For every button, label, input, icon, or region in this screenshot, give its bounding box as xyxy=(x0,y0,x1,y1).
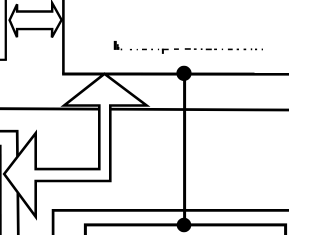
wire: left box right edge xyxy=(5,0,7,60)
wire: left box bottom edge xyxy=(0,59,7,61)
bent arrow (up head and left head) xyxy=(4,74,146,217)
node: lower-left box top edge and right edge xyxy=(0,131,18,235)
wire: bottom box 2 top edge xyxy=(85,225,285,235)
wire: long horizontal line xyxy=(0,109,289,110)
wire: lower-left inner vertical xyxy=(0,145,2,235)
label: tiny text row xyxy=(114,41,263,54)
junction dot top xyxy=(176,66,191,81)
double arrow (left-right) xyxy=(10,3,62,37)
wire: bottom box 1 top edge xyxy=(53,210,289,235)
junction dot bottom xyxy=(177,218,192,233)
wire: vertical bus line xyxy=(183,73,186,224)
top box: left edge and bottom edge (wire to right edge) xyxy=(62,0,65,74)
